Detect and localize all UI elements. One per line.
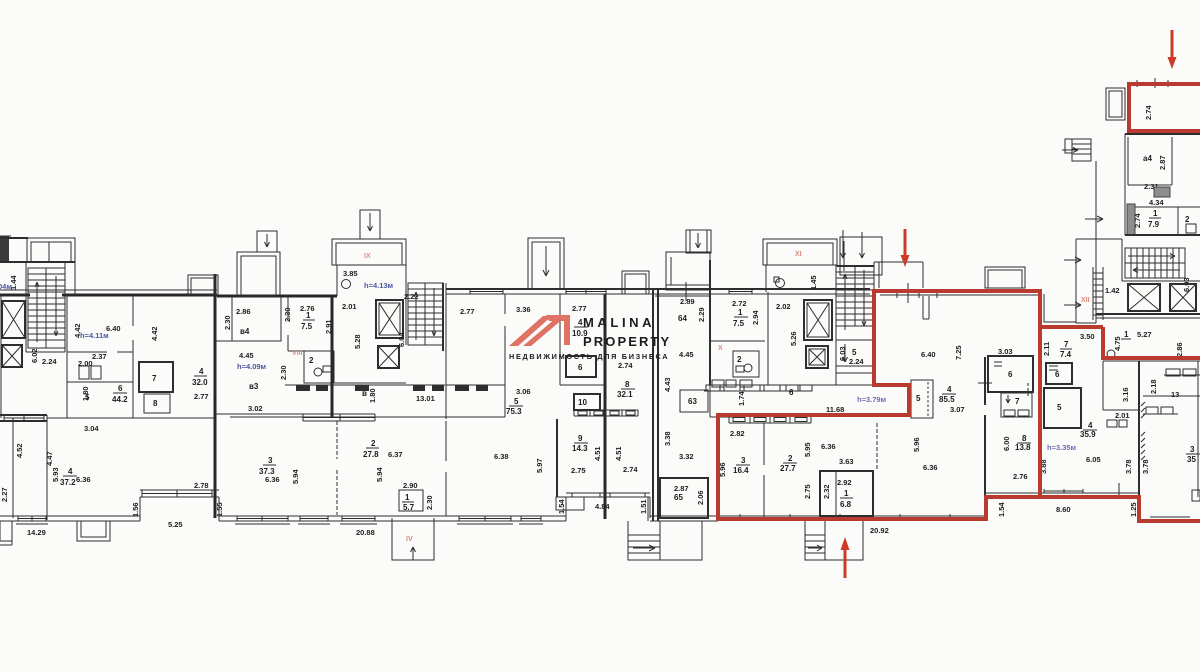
wall x330 thick bbox=[331, 296, 334, 417]
svg-text:11.68: 11.68 bbox=[826, 405, 844, 414]
svg-text:3.16: 3.16 bbox=[1121, 387, 1130, 402]
chimney tower bbox=[686, 230, 711, 253]
step wall x140 bbox=[139, 497, 141, 521]
wall x874 bbox=[873, 266, 875, 373]
svg-text:2.77: 2.77 bbox=[194, 392, 209, 401]
stairwell S1 bbox=[28, 268, 65, 348]
wc room 2 bbox=[304, 351, 334, 383]
room 2.72/7.5 bbox=[732, 299, 760, 328]
stairwell S2 bbox=[408, 283, 443, 345]
svg-text:4.51: 4.51 bbox=[593, 446, 602, 461]
room 6 44.2 label bbox=[112, 384, 128, 404]
wall top stub y238 bbox=[0, 237, 28, 239]
room 1.45 bbox=[766, 265, 837, 292]
svg-text:XII: XII bbox=[1081, 297, 1090, 304]
wall y418 left band bbox=[0, 415, 47, 421]
svg-text:3.03: 3.03 bbox=[998, 347, 1013, 356]
wall y361 bbox=[1103, 360, 1200, 362]
hatch on x1143 bbox=[1141, 402, 1145, 460]
svg-text:2.72: 2.72 bbox=[732, 299, 747, 308]
closet 6 p2 bbox=[1046, 363, 1072, 384]
wall x26 bbox=[25, 262, 27, 352]
balcony next to red box bbox=[1106, 88, 1125, 120]
arrow down roofA bbox=[841, 230, 846, 258]
wall x65 lobby bbox=[26, 262, 65, 352]
glazed band 574-638 bbox=[574, 410, 638, 416]
svg-text:4.52: 4.52 bbox=[15, 443, 24, 458]
svg-text:2.75: 2.75 bbox=[571, 466, 586, 475]
room 4 37.2 label bbox=[60, 467, 77, 487]
hall labels bbox=[1107, 330, 1184, 358]
svg-text:4.84: 4.84 bbox=[595, 502, 610, 511]
room v3 bbox=[237, 351, 288, 413]
wall y382 bbox=[67, 381, 133, 383]
svg-text:64: 64 bbox=[678, 314, 687, 323]
svg-text:в4: в4 bbox=[240, 327, 250, 336]
svg-text:14.3: 14.3 bbox=[572, 444, 588, 453]
svg-text:2.30: 2.30 bbox=[223, 315, 232, 330]
wall x215 thick unit separation bbox=[214, 274, 217, 518]
room 8/32.1 bbox=[617, 380, 635, 399]
tower XI bbox=[763, 239, 837, 265]
svg-text:10: 10 bbox=[578, 398, 587, 407]
svg-text:3.36: 3.36 bbox=[516, 305, 531, 314]
room 3/16.4 bbox=[733, 456, 750, 475]
window top 470-505 bbox=[470, 289, 503, 294]
svg-text:2.06: 2.06 bbox=[696, 490, 705, 505]
wall y383 stub bbox=[332, 382, 406, 384]
step wall x219 bbox=[218, 497, 220, 521]
window 5.25 bbox=[140, 490, 219, 497]
entrance tower left bbox=[666, 252, 710, 290]
svg-text:2.01: 2.01 bbox=[1115, 411, 1130, 420]
premise 2 red outline bbox=[1040, 327, 1200, 521]
svg-text:44.2: 44.2 bbox=[112, 395, 128, 404]
svg-text:2.74: 2.74 bbox=[623, 465, 638, 474]
wall y323 bbox=[1076, 322, 1096, 324]
svg-text:5.97: 5.97 bbox=[535, 458, 544, 473]
entrance box 1 bbox=[628, 521, 702, 560]
window top 729-752 bbox=[729, 289, 752, 294]
tick marks red box top bbox=[1137, 78, 1168, 88]
svg-text:7: 7 bbox=[1064, 340, 1069, 349]
svg-text:2.82: 2.82 bbox=[730, 429, 745, 438]
svg-text:2.94: 2.94 bbox=[751, 310, 760, 325]
svg-text:3.78: 3.78 bbox=[1141, 459, 1150, 474]
premise corridor window row bbox=[704, 385, 812, 391]
partition x877 dashed bbox=[876, 423, 878, 471]
svg-text:h=3.79м: h=3.79м bbox=[857, 395, 887, 404]
svg-text:6.03: 6.03 bbox=[838, 346, 847, 361]
wall pillar x1119 bbox=[1118, 483, 1120, 497]
svg-text:6.37: 6.37 bbox=[388, 450, 403, 459]
glazed partition band bbox=[303, 414, 375, 421]
bottom wall 650-718 bbox=[650, 516, 718, 521]
wall x566 step bbox=[565, 497, 567, 521]
wall x1103 bbox=[1102, 361, 1104, 410]
balcony IV entrance bbox=[392, 518, 434, 560]
room 64 bbox=[678, 297, 706, 323]
wall x443 bbox=[442, 283, 444, 351]
svg-text:32.1: 32.1 bbox=[617, 390, 633, 399]
svg-text:6.02: 6.02 bbox=[30, 348, 39, 363]
corridor door rects bbox=[296, 385, 488, 391]
svg-text:27.7: 27.7 bbox=[780, 464, 796, 473]
closet 5 p2 bbox=[1044, 388, 1081, 428]
bottom wall mid bbox=[219, 516, 566, 521]
step wall x650 bbox=[649, 497, 651, 518]
wall x288 bbox=[287, 296, 289, 351]
wall x406 bbox=[405, 239, 407, 345]
svg-text:3.07: 3.07 bbox=[950, 405, 965, 414]
wall x47 bbox=[46, 415, 48, 520]
svg-text:6.38: 6.38 bbox=[494, 452, 509, 461]
dim tick x686 bbox=[685, 282, 687, 301]
partition x764 bbox=[763, 423, 765, 517]
red arrow top bbox=[1168, 30, 1177, 69]
elevator E2 bbox=[2, 345, 22, 367]
svg-text:1: 1 bbox=[1153, 209, 1158, 218]
svg-text:IX: IX bbox=[364, 253, 371, 260]
wall y385 mid bbox=[560, 384, 606, 386]
wall y281 bbox=[1122, 280, 1200, 282]
premise 1 red outline bbox=[718, 291, 1040, 519]
bottom wall under premise1 bbox=[718, 515, 986, 517]
room 3.85 bbox=[337, 265, 406, 296]
dim 2.01 + window bbox=[1107, 411, 1130, 427]
wall top mid bbox=[446, 288, 870, 290]
svg-text:7.4: 7.4 bbox=[1060, 350, 1072, 359]
svg-text:5: 5 bbox=[514, 397, 519, 406]
svg-text:7.25: 7.25 bbox=[954, 345, 963, 360]
svg-text:75.3: 75.3 bbox=[506, 407, 522, 416]
svg-text:5.25: 5.25 bbox=[168, 520, 183, 529]
room 8 box bbox=[144, 394, 170, 413]
stair connectors bbox=[836, 373, 874, 385]
elevator E1 bbox=[2, 301, 25, 338]
wall y239 bbox=[1076, 238, 1122, 240]
arrow right y260 bbox=[1064, 257, 1081, 263]
room 7 box bbox=[139, 362, 173, 392]
svg-text:в3: в3 bbox=[249, 382, 259, 391]
room 2.74 col labels bbox=[618, 361, 672, 392]
room 2.77/10.9 bbox=[572, 304, 588, 338]
svg-text:65: 65 bbox=[674, 493, 683, 502]
svg-text:2: 2 bbox=[371, 439, 376, 448]
window band y372 bbox=[1164, 369, 1200, 376]
svg-text:2.77: 2.77 bbox=[572, 304, 587, 313]
elevator E5 bbox=[804, 300, 832, 340]
wall stub x1028 bbox=[1027, 383, 1029, 397]
svg-text:2.75: 2.75 bbox=[803, 484, 812, 499]
svg-text:X: X bbox=[718, 345, 723, 352]
svg-text:3.32: 3.32 bbox=[679, 452, 694, 461]
svg-text:6.36: 6.36 bbox=[76, 475, 91, 484]
svg-text:2.11: 2.11 bbox=[1042, 342, 1051, 356]
window sills left bbox=[16, 523, 543, 525]
wall y414 B bottom bbox=[215, 413, 332, 415]
svg-text:27.8: 27.8 bbox=[363, 450, 379, 459]
svg-text:6.36: 6.36 bbox=[923, 463, 938, 472]
svg-text:3.85: 3.85 bbox=[343, 269, 358, 278]
wall y351 wc top bbox=[288, 350, 304, 352]
svg-text:6: 6 bbox=[118, 384, 123, 393]
room v4 bbox=[223, 296, 292, 341]
svg-text:2.86: 2.86 bbox=[1175, 342, 1184, 357]
wall y315 double bbox=[1096, 313, 1200, 315]
svg-text:4: 4 bbox=[1088, 421, 1093, 430]
svg-text:1.74: 1.74 bbox=[737, 391, 746, 406]
wall x446 down bbox=[445, 283, 447, 419]
svg-text:2.32: 2.32 bbox=[822, 484, 831, 499]
room 4/35.9 bbox=[1080, 421, 1097, 439]
svg-text:6: 6 bbox=[1055, 370, 1060, 379]
wall x133 bbox=[132, 296, 134, 418]
entrance box 2 bbox=[805, 521, 863, 560]
wall y133 bbox=[1125, 133, 1200, 135]
svg-text:1: 1 bbox=[306, 311, 311, 320]
svg-text:1: 1 bbox=[844, 489, 849, 498]
bottom wall left bbox=[0, 516, 140, 521]
svg-text:5.28: 5.28 bbox=[353, 334, 362, 349]
black wall under red right bbox=[986, 489, 1139, 493]
box 5.7 bbox=[399, 481, 434, 512]
wall y352 room 6.40 bbox=[67, 351, 133, 353]
balcony sill 560 bbox=[556, 497, 584, 510]
wall x1122 bbox=[1121, 239, 1123, 281]
svg-text:04м: 04м bbox=[0, 282, 12, 291]
exterior stair top bbox=[1062, 139, 1091, 161]
svg-text:16.4: 16.4 bbox=[733, 466, 749, 475]
svg-text:XI: XI bbox=[795, 251, 802, 258]
svg-text:2.02: 2.02 bbox=[776, 302, 791, 311]
corridor premise top band bbox=[710, 385, 875, 417]
svg-text:MALINA: MALINA bbox=[583, 315, 655, 330]
window right edge bbox=[1192, 490, 1200, 501]
svg-text:1.42: 1.42 bbox=[1105, 286, 1120, 295]
svg-text:13: 13 bbox=[1171, 390, 1179, 399]
room 6 box mid bbox=[566, 356, 596, 377]
dim 5 2.24 bbox=[849, 348, 864, 366]
closet 5 box bbox=[911, 380, 933, 418]
room 8/13.8 bbox=[1015, 434, 1031, 452]
svg-text:3.02: 3.02 bbox=[248, 404, 263, 413]
window bottom right bbox=[1150, 517, 1190, 521]
svg-text:2.92: 2.92 bbox=[837, 478, 852, 487]
closet boxes bbox=[79, 366, 101, 379]
right rooms bbox=[1141, 379, 1200, 474]
svg-text:5: 5 bbox=[1057, 403, 1062, 412]
svg-text:7.5: 7.5 bbox=[301, 322, 313, 331]
svg-text:5.26: 5.26 bbox=[789, 331, 798, 346]
bottom wall y497 mid-right bbox=[566, 493, 650, 497]
wall y235 bbox=[1125, 234, 1200, 236]
svg-text:2.78: 2.78 bbox=[194, 481, 209, 490]
svg-text:НЕДВИЖИМОСТЬ ДЛЯ БИЗНЕСА: НЕДВИЖИМОСТЬ ДЛЯ БИЗНЕСА bbox=[509, 352, 669, 361]
svg-text:20.92: 20.92 bbox=[870, 526, 889, 535]
svg-text:8.60: 8.60 bbox=[1056, 505, 1071, 514]
wall x75 upper bbox=[74, 238, 76, 295]
wall x446 lower bbox=[445, 421, 447, 516]
wall x13 lower bbox=[12, 418, 14, 518]
svg-text:1.80: 1.80 bbox=[368, 388, 377, 403]
svg-text:3.38: 3.38 bbox=[663, 431, 672, 446]
svg-text:2: 2 bbox=[737, 355, 742, 364]
svg-text:1: 1 bbox=[738, 308, 743, 317]
svg-text:h=4.09м: h=4.09м bbox=[237, 362, 267, 371]
svg-text:4: 4 bbox=[199, 367, 204, 376]
svg-text:2.86: 2.86 bbox=[236, 307, 251, 316]
wall y418 mid bbox=[47, 417, 215, 419]
balcony box top-left bbox=[27, 238, 75, 262]
wc room 2b bbox=[733, 351, 759, 377]
svg-text:2.18: 2.18 bbox=[1149, 379, 1158, 394]
svg-text:63: 63 bbox=[688, 397, 697, 406]
elevator E8 bbox=[1170, 284, 1196, 311]
chimney IX bbox=[360, 210, 380, 239]
wall y341 bbox=[215, 340, 281, 342]
window boxes y407 bbox=[1143, 407, 1178, 414]
closet 7 box bbox=[1001, 393, 1032, 417]
svg-text:2: 2 bbox=[309, 356, 314, 365]
hatch wall a4 bbox=[1154, 187, 1170, 197]
svg-text:7: 7 bbox=[152, 374, 157, 383]
wall x337 partition bbox=[336, 421, 338, 515]
svg-text:5.95: 5.95 bbox=[803, 442, 812, 457]
svg-text:6.8: 6.8 bbox=[840, 500, 852, 509]
room 5/75.3 label bbox=[506, 397, 523, 416]
wall x710 thick bbox=[709, 260, 711, 385]
balcony box 985-1025 bbox=[985, 267, 1025, 288]
svg-text:3: 3 bbox=[1190, 445, 1195, 454]
svg-text:4.34: 4.34 bbox=[1149, 198, 1164, 207]
svg-text:13.8: 13.8 bbox=[1015, 443, 1031, 452]
svg-text:8: 8 bbox=[625, 380, 630, 389]
svg-text:5.94: 5.94 bbox=[375, 467, 384, 482]
svg-text:2.74: 2.74 bbox=[1144, 105, 1153, 120]
svg-text:а4: а4 bbox=[1143, 154, 1152, 163]
svg-text:1.56: 1.56 bbox=[131, 502, 140, 517]
wall x1139 bbox=[1138, 361, 1140, 497]
chimney T1 bbox=[257, 231, 277, 252]
svg-text:13.01: 13.01 bbox=[416, 394, 435, 403]
svg-text:6: 6 bbox=[1008, 370, 1013, 379]
svg-text:1.45: 1.45 bbox=[809, 275, 818, 290]
balcony above wall bbox=[188, 275, 218, 295]
svg-text:1: 1 bbox=[1124, 330, 1129, 339]
svg-text:h=3.35м: h=3.35м bbox=[1047, 443, 1077, 452]
svg-text:2.89: 2.89 bbox=[680, 297, 695, 306]
svg-text:6.04: 6.04 bbox=[397, 332, 406, 347]
svg-text:3.50: 3.50 bbox=[1080, 332, 1095, 341]
svg-text:2.30: 2.30 bbox=[425, 495, 434, 510]
wall y266 bbox=[837, 265, 874, 267]
svg-text:5.27: 5.27 bbox=[1137, 330, 1152, 339]
svg-text:7.9: 7.9 bbox=[1148, 220, 1160, 229]
svg-text:5: 5 bbox=[85, 393, 90, 402]
room 65 bbox=[660, 478, 708, 518]
balcony above 616-650 bbox=[622, 271, 649, 294]
svg-text:3.04: 3.04 bbox=[84, 424, 99, 433]
svg-text:4.47: 4.47 bbox=[45, 451, 54, 466]
arrow down roofB bbox=[860, 232, 865, 258]
svg-text:2.87: 2.87 bbox=[1158, 155, 1167, 170]
svg-text:2.24: 2.24 bbox=[849, 357, 864, 366]
svg-text:1: 1 bbox=[405, 493, 410, 502]
red arrow bottom bbox=[841, 537, 850, 578]
svg-text:2.87: 2.87 bbox=[674, 484, 689, 493]
tick x985 bbox=[978, 382, 992, 384]
svg-text:7: 7 bbox=[1015, 397, 1020, 406]
svg-text:2.30: 2.30 bbox=[279, 365, 288, 380]
shaft tower above bbox=[528, 238, 564, 289]
arrow right y305 bbox=[1064, 302, 1081, 308]
window y418 bbox=[4, 415, 44, 421]
svg-text:6.36: 6.36 bbox=[265, 475, 280, 484]
room 2 right bbox=[1178, 207, 1200, 235]
wall x1198 bbox=[1197, 361, 1199, 497]
svg-text:2: 2 bbox=[1185, 215, 1190, 224]
room 7.5 bbox=[300, 304, 333, 334]
svg-text:2.24: 2.24 bbox=[42, 357, 57, 366]
closet 6 box bbox=[988, 356, 1033, 392]
logo mark M bbox=[509, 315, 570, 346]
wall x768 bbox=[767, 292, 769, 385]
svg-text:37.2: 37.2 bbox=[60, 478, 76, 487]
svg-text:3: 3 bbox=[268, 456, 273, 465]
elevator E7 bbox=[1128, 284, 1160, 311]
wall left edge hatch bbox=[0, 236, 11, 262]
wall y341 bbox=[710, 340, 765, 342]
svg-text:2.00: 2.00 bbox=[78, 359, 93, 368]
svg-text:1.25: 1.25 bbox=[1129, 502, 1138, 517]
svg-text:2.74: 2.74 bbox=[618, 361, 633, 370]
wall x648 step bbox=[647, 497, 649, 521]
svg-text:8: 8 bbox=[153, 399, 158, 408]
arrow right y219 bbox=[1085, 216, 1103, 222]
stairwell S3 bbox=[836, 266, 874, 373]
svg-text:85.5: 85.5 bbox=[939, 395, 955, 404]
svg-text:4.42: 4.42 bbox=[150, 326, 159, 341]
room 4/85.5 bbox=[939, 385, 965, 414]
wall x1096 bbox=[1095, 161, 1097, 323]
svg-text:4.45: 4.45 bbox=[239, 351, 254, 360]
svg-text:5.96: 5.96 bbox=[912, 437, 921, 452]
room 4/32.0 label bbox=[192, 367, 209, 401]
tower IX bbox=[332, 239, 406, 265]
room 3 37.3 label bbox=[259, 456, 300, 484]
svg-text:3.78: 3.78 bbox=[1124, 459, 1133, 474]
bathroom box 6.8 bbox=[820, 471, 873, 516]
room 2/27.7 bbox=[780, 454, 797, 473]
svg-text:2: 2 bbox=[788, 454, 793, 463]
wall x560 bbox=[559, 294, 561, 385]
svg-text:4: 4 bbox=[68, 467, 73, 476]
wall y396 right bbox=[1143, 395, 1200, 397]
svg-text:6: 6 bbox=[789, 388, 794, 397]
elevator E4 bbox=[378, 346, 399, 368]
room 10 box bbox=[574, 394, 600, 410]
wall main top bbox=[0, 294, 217, 297]
svg-text:6.05: 6.05 bbox=[1086, 455, 1101, 464]
room a4 bbox=[1128, 137, 1172, 191]
wall x986 black under red bbox=[986, 496, 1040, 498]
ladder shaft bbox=[1093, 267, 1103, 320]
wall y296 block64 bbox=[655, 295, 710, 297]
svg-text:5: 5 bbox=[852, 348, 857, 357]
svg-text:IV: IV bbox=[406, 536, 413, 543]
svg-text:35.9: 35.9 bbox=[1080, 430, 1096, 439]
